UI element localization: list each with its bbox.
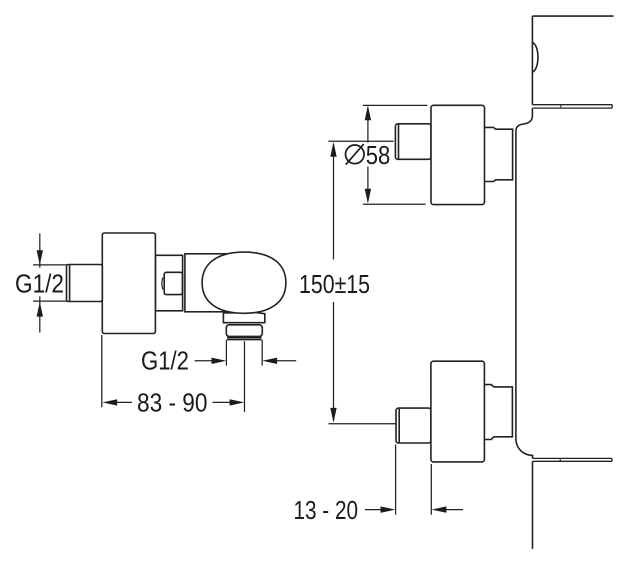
svg-text:G1/2: G1/2 [15, 269, 64, 299]
svg-text:13 - 20: 13 - 20 [294, 495, 359, 525]
svg-text:150±15: 150±15 [299, 269, 370, 299]
svg-text:G1/2: G1/2 [141, 345, 189, 375]
svg-text:58: 58 [366, 140, 391, 170]
svg-text:83 - 90: 83 - 90 [137, 388, 208, 418]
